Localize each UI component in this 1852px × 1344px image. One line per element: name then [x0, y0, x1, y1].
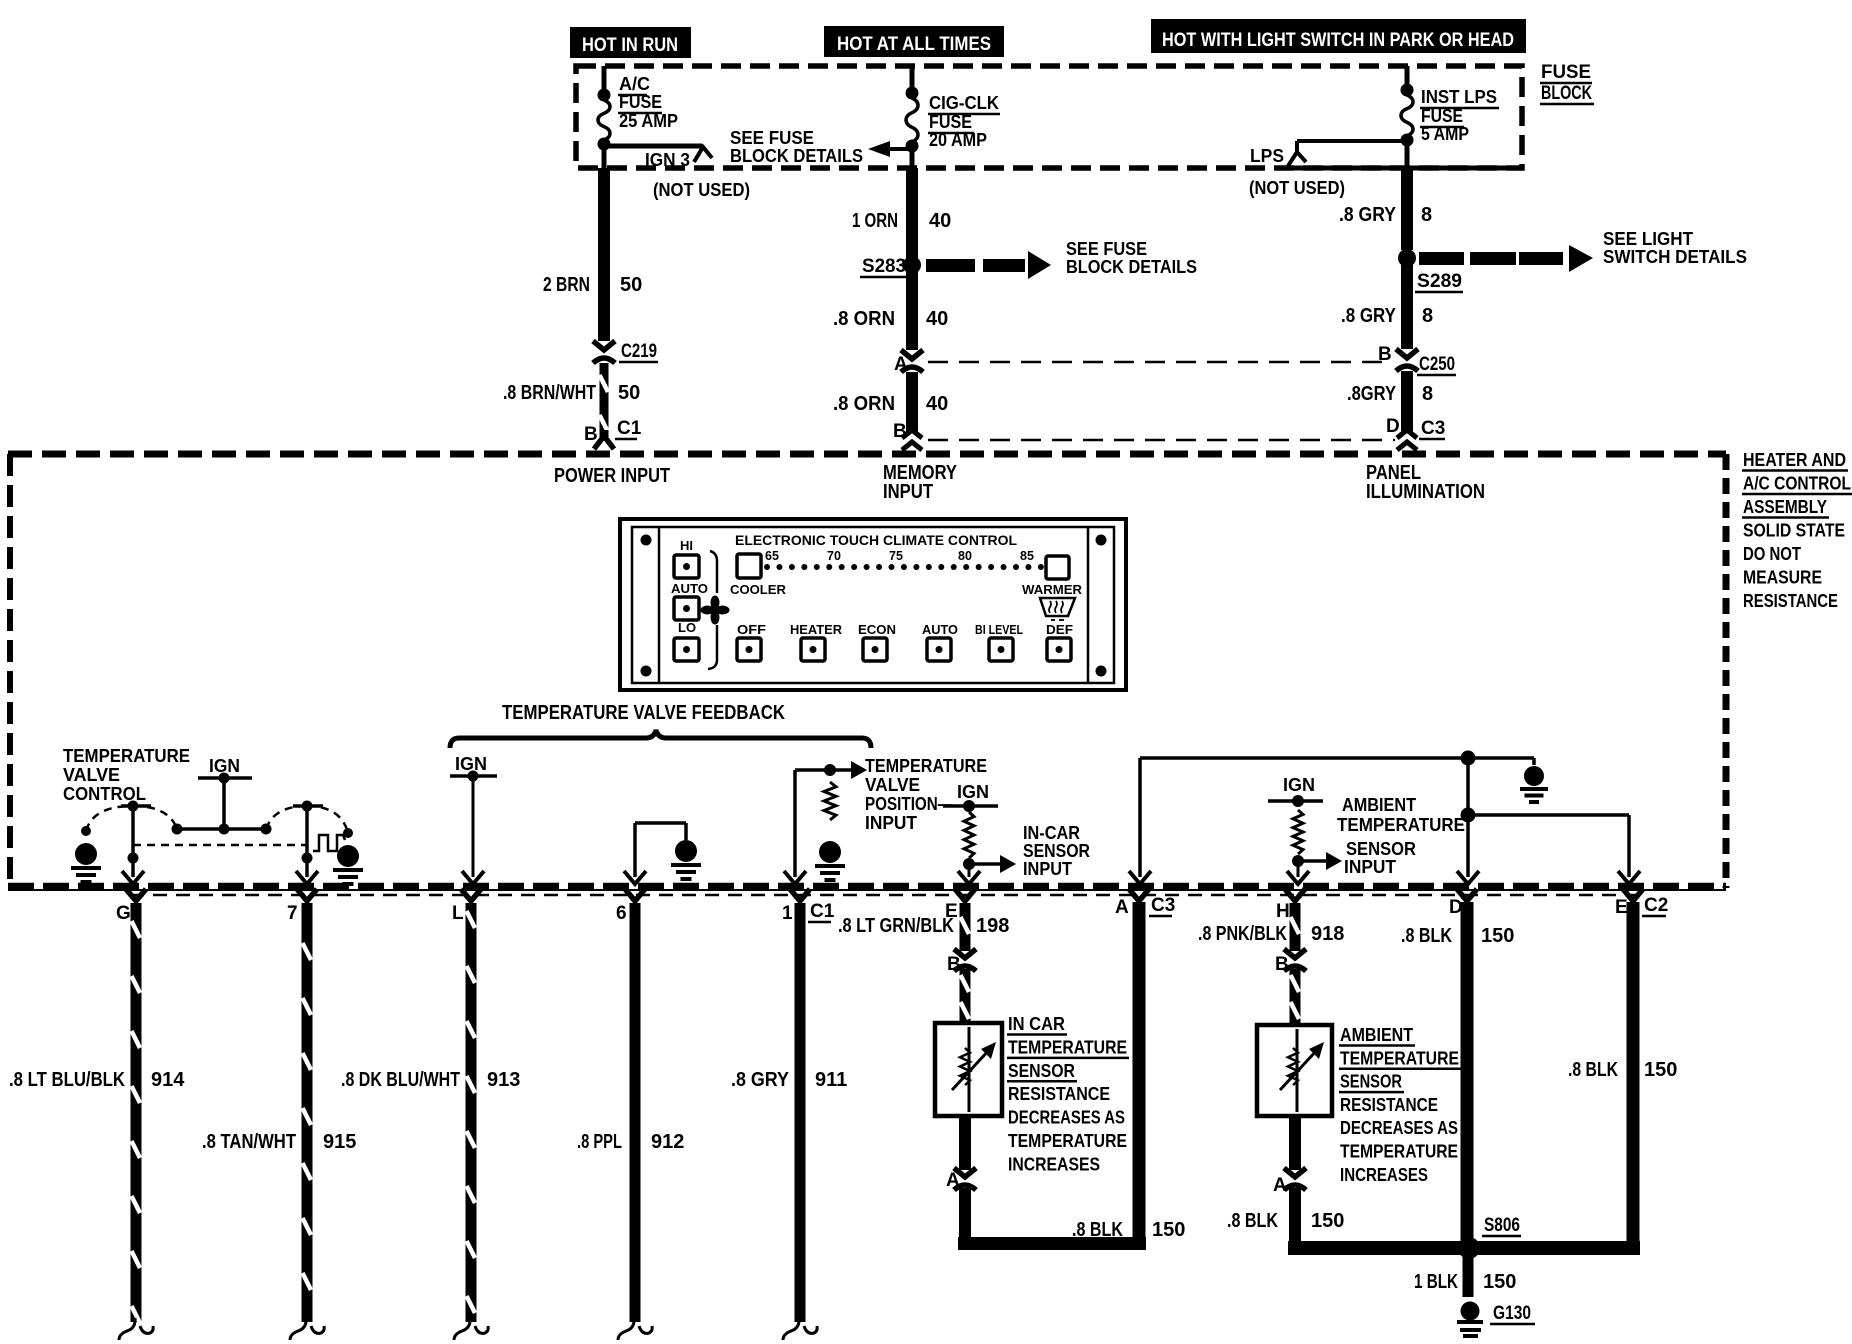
svg-text:SENSOR: SENSOR [1023, 841, 1090, 861]
svg-text:198: 198 [976, 915, 1009, 937]
svg-text:.8 GRY: .8 GRY [731, 1069, 790, 1091]
fuse CIG-CLK 20A [906, 66, 919, 170]
svg-text:B: B [1378, 344, 1392, 365]
svg-text:A/C: A/C [619, 74, 650, 94]
feedback brace [450, 730, 871, 748]
svg-text:HOT WITH LIGHT SWITCH IN PARK: HOT WITH LIGHT SWITCH IN PARK OR HEAD [1162, 30, 1514, 51]
button AUTO [927, 638, 951, 661]
svg-text:1 ORN: 1 ORN [852, 210, 898, 232]
label .8 LT GRN/BLK 198 [838, 915, 1009, 937]
label ECON [858, 622, 896, 637]
dashed line A-B C250 [928, 361, 1390, 364]
svg-text:8: 8 [1421, 204, 1432, 226]
label WARMER [1022, 582, 1083, 597]
dashed arc right [266, 806, 348, 833]
svg-text:IGN 3: IGN 3 [645, 150, 690, 170]
label MEMORY INPUT [883, 462, 958, 503]
wire G 914 [116, 889, 153, 1340]
svg-text:.8 BLK: .8 BLK [1227, 1210, 1278, 1232]
connector A in-car [946, 1168, 976, 1191]
wire 6 912 [616, 889, 652, 1340]
svg-text:G130: G130 [1493, 1303, 1531, 1324]
connector B in-car [947, 949, 976, 975]
svg-text:TEMPERATURE VALVE FEEDBACK: TEMPERATURE VALVE FEEDBACK [502, 702, 785, 724]
svg-text:.8 PNK/BLK: .8 PNK/BLK [1198, 923, 1287, 945]
wire H upper [1276, 889, 1305, 951]
svg-text:AUTO: AUTO [671, 581, 708, 596]
label S283 [860, 256, 906, 277]
label TEMPERATURE VALVE FEEDBACK [502, 702, 785, 724]
svg-text:70: 70 [827, 549, 841, 563]
label C219 [619, 341, 658, 362]
label .8 GRY 8 b [1341, 305, 1433, 327]
label LPS [1250, 146, 1284, 166]
svg-text:7: 7 [287, 903, 298, 924]
label see fuse block details 1 [730, 128, 863, 166]
wire to 7 [296, 806, 318, 884]
svg-text:FUSE: FUSE [929, 112, 972, 132]
button HEATER [801, 638, 825, 661]
wire .8 GRY 8 mid [1401, 258, 1413, 349]
label AUTO [922, 622, 958, 637]
dashed arrow S289 [1419, 245, 1593, 272]
svg-text:912: 912 [651, 1131, 684, 1153]
svg-text:SWITCH DETAILS: SWITCH DETAILS [1603, 247, 1747, 267]
wire .8 GRY 8 upper [1401, 167, 1413, 250]
svg-text:SENSOR: SENSOR [1346, 839, 1416, 859]
IGN feed 1 [198, 756, 252, 829]
label .8 BLK 150 D [1401, 925, 1514, 947]
svg-text:.8 GRY: .8 GRY [1341, 305, 1397, 327]
label HEATER [790, 622, 843, 637]
svg-text:40: 40 [926, 393, 948, 415]
svg-text:BI LEVEL: BI LEVEL [975, 622, 1023, 637]
label HEATER AND A/C CONTROL ASSEMBLY [1742, 450, 1852, 611]
svg-text:915: 915 [323, 1131, 356, 1153]
label 2 BRN 50 [543, 274, 642, 296]
svg-text:.8GRY: .8GRY [1347, 383, 1397, 405]
label C3 top [1419, 418, 1445, 439]
header HOT WITH LIGHT SWITCH IN PARK OR HEAD [1151, 19, 1526, 53]
fuse INST LPS 5A [1401, 66, 1414, 168]
svg-text:POWER INPUT: POWER INPUT [554, 465, 670, 487]
svg-text:IGN: IGN [957, 782, 989, 802]
svg-text:D: D [1386, 416, 1400, 437]
wire 1 BLK 150 [1463, 1255, 1474, 1297]
splice S283 [903, 256, 921, 274]
svg-text:AMBIENT: AMBIENT [1342, 795, 1416, 815]
label POWER INPUT [554, 465, 670, 487]
label .8 BLK 150 E2 [1568, 1059, 1677, 1081]
svg-text:BLOCK DETAILS: BLOCK DETAILS [730, 146, 863, 166]
IGN feed 2 [450, 754, 497, 884]
fan symbol [701, 596, 730, 625]
arrow to cig wire [868, 141, 912, 157]
label COOLER [730, 582, 787, 597]
in-car sensor box [935, 1023, 1002, 1116]
svg-text:(NOT USED): (NOT USED) [1249, 178, 1345, 198]
label IGN 3 [645, 150, 690, 170]
connector A ambient [1273, 1168, 1306, 1196]
label .8 PPL 912 [577, 1131, 684, 1153]
svg-text:B: B [947, 954, 961, 975]
label TEMPERATURE VALVE POSITION INPUT [865, 756, 987, 833]
svg-text:SENSOR: SENSOR [1340, 1072, 1402, 1092]
svg-text:B: B [584, 424, 598, 445]
label .8GRY 8 c [1347, 383, 1433, 405]
net to A C3 [1129, 751, 1534, 885]
valve position node [784, 761, 867, 884]
svg-text:WARMER: WARMER [1022, 582, 1083, 597]
svg-text:913: 913 [487, 1069, 520, 1091]
wire .8 BLK 150 in-car [959, 1188, 971, 1250]
label OFF [737, 622, 766, 637]
svg-text:INCREASES: INCREASES [1340, 1165, 1428, 1185]
label see fuse block details 2 [1066, 239, 1197, 277]
svg-text:HI: HI [680, 538, 693, 553]
svg-text:COOLER: COOLER [730, 582, 787, 597]
svg-text:DECREASES AS: DECREASES AS [1008, 1108, 1125, 1128]
net to E C2 [1468, 815, 1640, 884]
svg-text:VALVE: VALVE [865, 775, 920, 795]
svg-text:TEMPERATURE: TEMPERATURE [1337, 815, 1465, 835]
pin A [894, 354, 908, 375]
dashed line B-D C3 [928, 439, 1395, 442]
svg-text:RESISTANCE: RESISTANCE [1340, 1095, 1438, 1115]
wire .8 ORN 40 lower [906, 372, 918, 431]
wire E C2 150 [1615, 889, 1643, 1243]
svg-text:CIG-CLK: CIG-CLK [929, 93, 999, 113]
label BI LEVEL [975, 622, 1023, 637]
ground G130 [1457, 1302, 1483, 1337]
ground right [333, 828, 363, 884]
button COOLER [737, 554, 761, 578]
LPS branch [1288, 141, 1407, 166]
svg-text:POSITION—: POSITION— [865, 794, 953, 814]
pin B C1 [584, 424, 598, 445]
svg-text:8: 8 [1422, 383, 1433, 405]
IGN 3 branch [604, 146, 712, 162]
label .8 BLK 150 ambient [1227, 1210, 1344, 1232]
svg-text:HOT IN RUN: HOT IN RUN [582, 35, 678, 56]
svg-text:INST LPS: INST LPS [1421, 87, 1497, 107]
label .8 PNK/BLK 918 [1198, 923, 1344, 945]
fuse block box [576, 66, 1522, 168]
svg-text:INPUT: INPUT [883, 481, 933, 503]
label .8 BLK 150 in-car [1072, 1219, 1185, 1241]
label AUTO fan [671, 581, 708, 596]
svg-text:SEE LIGHT: SEE LIGHT [1603, 229, 1693, 249]
svg-text:IN CAR: IN CAR [1008, 1014, 1065, 1034]
svg-text:BLOCK: BLOCK [1541, 83, 1592, 104]
label not used 1 [653, 180, 750, 200]
svg-text:75: 75 [889, 549, 903, 563]
label HI [680, 538, 693, 553]
splice S289 [1398, 249, 1416, 267]
ambient sensor symbol [1280, 1029, 1324, 1112]
svg-text:20 AMP: 20 AMP [929, 130, 987, 150]
assembly box top [8, 451, 1726, 458]
svg-text:ECON: ECON [858, 622, 896, 637]
wire 2 BRN 50 [598, 168, 610, 341]
svg-text:.8 TAN/WHT: .8 TAN/WHT [202, 1131, 296, 1153]
svg-text:RESISTANCE: RESISTANCE [1743, 591, 1838, 611]
IGN feed 4 [1268, 775, 1323, 807]
wire loop bottom in-car [958, 1237, 1146, 1250]
IGN feed 3 [943, 782, 998, 812]
svg-text:C3: C3 [1421, 418, 1445, 439]
svg-text:IGN: IGN [1283, 775, 1315, 795]
svg-text:.8 LT BLU/BLK: .8 LT BLU/BLK [9, 1069, 125, 1091]
svg-text:150: 150 [1483, 1271, 1516, 1293]
svg-text:150: 150 [1644, 1059, 1677, 1081]
svg-text:BLOCK DETAILS: BLOCK DETAILS [1066, 257, 1197, 277]
svg-text:FUSE: FUSE [619, 92, 662, 112]
svg-text:C1: C1 [810, 901, 835, 922]
assembly box bottom [8, 886, 1726, 890]
svg-text:H: H [1276, 901, 1290, 922]
svg-text:AUTO: AUTO [922, 622, 958, 637]
label C3 bottom [1149, 895, 1175, 916]
bus line [172, 824, 272, 835]
svg-text:HEATER AND: HEATER AND [1743, 450, 1846, 470]
svg-text:.8 DK BLU/WHT: .8 DK BLU/WHT [341, 1069, 460, 1091]
button LO [674, 638, 699, 661]
wire to G [122, 806, 144, 884]
connector C219 [593, 341, 615, 363]
label not used 2 [1249, 178, 1345, 198]
header HOT IN RUN [570, 27, 691, 58]
svg-text:AMBIENT: AMBIENT [1340, 1025, 1413, 1045]
connector B ambient [1275, 949, 1306, 975]
splice S806 [1458, 1237, 1480, 1259]
svg-text:DECREASES AS: DECREASES AS [1340, 1118, 1458, 1138]
ground left [71, 826, 101, 882]
svg-text:E: E [1615, 897, 1628, 918]
label TEMPERATURE VALVE CONTROL [63, 746, 190, 804]
svg-text:TEMPERATURE: TEMPERATURE [1008, 1037, 1127, 1057]
label .8 BRN/WHT 50 [503, 382, 640, 404]
label .8 GRY 8 a [1339, 204, 1432, 226]
svg-text:SEE FUSE: SEE FUSE [1066, 239, 1147, 259]
svg-text:C219: C219 [621, 341, 657, 362]
svg-text:.8 GRY: .8 GRY [1339, 204, 1397, 226]
button ECON [863, 638, 887, 661]
svg-text:40: 40 [926, 308, 948, 330]
label S806 [1482, 1215, 1521, 1236]
scale numbers [765, 549, 1034, 563]
wire 1 911 [782, 889, 817, 1340]
svg-text:INPUT: INPUT [1023, 859, 1072, 879]
svg-text:ELECTRONIC TOUCH CLIMATE CONT: ELECTRONIC TOUCH CLIMATE CONTROL [735, 532, 1017, 548]
svg-text:.8 ORN: .8 ORN [833, 393, 895, 415]
ambient sensor box [1257, 1025, 1332, 1116]
label C1 top [615, 418, 642, 439]
svg-text:DEF: DEF [1046, 622, 1073, 637]
svg-text:FUSE: FUSE [1421, 106, 1463, 126]
label DEF [1046, 622, 1073, 637]
svg-text:65: 65 [765, 549, 779, 563]
svg-text:8: 8 [1422, 305, 1433, 327]
label see light switch details [1603, 229, 1747, 267]
svg-text:L: L [452, 903, 464, 924]
svg-text:50: 50 [620, 274, 642, 296]
fuse block bottom solid segment [1290, 166, 1522, 171]
wire E below sensor [959, 1116, 971, 1170]
svg-text:914: 914 [151, 1069, 185, 1091]
label C250 [1417, 354, 1456, 375]
svg-text:.8 ORN: .8 ORN [833, 308, 895, 330]
svg-text:85: 85 [1020, 549, 1034, 563]
svg-text:S806: S806 [1484, 1215, 1520, 1236]
position potentiometer [815, 782, 845, 880]
label PANEL ILLUMINATION [1366, 462, 1485, 503]
wire E to sensor [960, 969, 971, 1023]
label LO [678, 620, 696, 635]
connector D at C3 [1397, 430, 1417, 450]
connector A inline [901, 350, 923, 372]
wire 1 ORN 40 upper [906, 168, 918, 258]
svg-text:RESISTANCE: RESISTANCE [1008, 1084, 1110, 1104]
svg-text:150: 150 [1152, 1219, 1185, 1241]
svg-text:5 AMP: 5 AMP [1421, 124, 1469, 144]
svg-text:TEMPERATURE: TEMPERATURE [1340, 1048, 1459, 1068]
button HI [674, 555, 699, 578]
svg-text:911: 911 [815, 1069, 847, 1091]
svg-text:.8 BLK: .8 BLK [1568, 1059, 1618, 1081]
svg-text:INPUT: INPUT [865, 813, 917, 833]
svg-text:150: 150 [1311, 1210, 1344, 1232]
connector row dashed line [130, 894, 1642, 897]
control panel bezel [620, 519, 1126, 690]
dashed link [133, 844, 307, 847]
svg-text:TEMPERATURE: TEMPERATURE [1008, 1131, 1127, 1151]
svg-text:FUSE: FUSE [1541, 62, 1591, 83]
ground top right [1520, 758, 1548, 802]
svg-text:(NOT USED): (NOT USED) [653, 180, 750, 200]
svg-text:LO: LO [678, 620, 696, 635]
svg-text:TEMPERATURE: TEMPERATURE [63, 746, 190, 766]
label AMBIENT TEMPERATURE SENSOR text [1339, 1025, 1461, 1185]
wire A C3 150 [1115, 889, 1149, 1250]
button AUTO fan [674, 597, 699, 620]
label .8 LT BLU/BLK 914 [9, 1069, 185, 1091]
svg-text:MEASURE: MEASURE [1743, 568, 1822, 588]
svg-text:TEMPERATURE: TEMPERATURE [1340, 1142, 1458, 1162]
label .8 GRY 911 [731, 1069, 847, 1091]
fuse A/C 25A [598, 66, 611, 170]
wire E upper [945, 889, 975, 951]
svg-text:S283: S283 [862, 256, 906, 277]
wire .8 ORN 40 mid [906, 265, 918, 350]
scale dots [764, 564, 1044, 570]
svg-text:C1: C1 [617, 418, 642, 439]
label C1 bottom [808, 901, 835, 922]
label INST LPS FUSE 5 AMP [1420, 87, 1499, 144]
ground mid [624, 823, 701, 884]
label AMBIENT TEMPERATURE SENSOR INPUT [1337, 795, 1465, 877]
label IN-CAR SENSOR INPUT [1023, 823, 1090, 879]
svg-text:SENSOR: SENSOR [1008, 1061, 1075, 1081]
svg-text:1: 1 [782, 903, 793, 924]
svg-text:LPS: LPS [1250, 146, 1284, 166]
fuse block label [1540, 62, 1594, 104]
label IN CAR TEMPERATURE SENSOR text [1007, 1014, 1129, 1174]
svg-text:VALVE: VALVE [63, 765, 120, 785]
in-car sensor symbol [952, 1027, 996, 1112]
label 1 BLK 150 [1414, 1271, 1516, 1293]
wire H to sensor [1290, 969, 1301, 1025]
svg-text:HEATER: HEATER [790, 622, 843, 637]
label 1 ORN 40 [852, 210, 951, 232]
wire bottom bus to S806 and E C2 [1288, 1241, 1640, 1255]
svg-text:.8 LT GRN/BLK: .8 LT GRN/BLK [838, 915, 954, 937]
svg-text:.8 BRN/WHT: .8 BRN/WHT [503, 382, 596, 404]
label .8 ORN 40 a [833, 308, 948, 330]
pulse symbol [313, 835, 345, 851]
svg-text:.8 BLK: .8 BLK [1401, 925, 1452, 947]
wire .8 BRN/WHT 50 [600, 363, 609, 432]
wire .8 BLK 150 ambient [1289, 1188, 1301, 1248]
svg-text:C2: C2 [1644, 895, 1668, 916]
svg-text:40: 40 [929, 210, 951, 232]
svg-text:1 BLK: 1 BLK [1414, 1271, 1458, 1293]
svg-text:A: A [1273, 1175, 1287, 1196]
in-car sensor node [958, 812, 1016, 884]
svg-text:G: G [116, 903, 131, 924]
svg-text:25 AMP: 25 AMP [619, 111, 678, 131]
svg-text:918: 918 [1311, 923, 1344, 945]
svg-text:INCREASES: INCREASES [1008, 1154, 1100, 1174]
label .8 TAN/WHT 915 [202, 1131, 356, 1153]
connector B at C1 [902, 372, 922, 450]
svg-text:DO NOT: DO NOT [1743, 544, 1801, 564]
svg-text:.8 PPL: .8 PPL [577, 1131, 622, 1153]
header HOT AT ALL TIMES [824, 26, 1004, 57]
label A/C FUSE 25 AMP [618, 74, 678, 131]
fan brace [708, 551, 717, 669]
svg-text:OFF: OFF [737, 622, 766, 637]
wire 7 915 [287, 889, 324, 1340]
assembly box left [7, 454, 13, 886]
svg-text:IN-CAR: IN-CAR [1023, 823, 1080, 843]
button OFF [737, 638, 761, 661]
button WARMER [1046, 556, 1069, 579]
label C2 [1642, 895, 1668, 916]
pin B C250 [1378, 344, 1392, 365]
svg-text:ILLUMINATION: ILLUMINATION [1366, 481, 1485, 503]
svg-text:C250: C250 [1419, 354, 1455, 375]
button BI LEVEL [989, 638, 1013, 661]
svg-text:INPUT: INPUT [1344, 857, 1396, 877]
label S289 [1415, 271, 1463, 292]
svg-text:80: 80 [958, 549, 972, 563]
svg-text:C3: C3 [1151, 895, 1175, 916]
pin D C3 [1386, 416, 1400, 437]
svg-text:HOT AT ALL TIMES: HOT AT ALL TIMES [837, 34, 991, 55]
label CIG-CLK FUSE 20 AMP [928, 93, 1000, 150]
wiper right [293, 801, 323, 812]
wire L 913 [452, 889, 488, 1340]
label .8 ORN 40 b [833, 393, 948, 415]
svg-text:TEMPERATURE: TEMPERATURE [865, 756, 987, 776]
label G130 [1490, 1303, 1535, 1324]
defrost icon [1040, 598, 1075, 620]
svg-text:2 BRN: 2 BRN [543, 274, 590, 296]
connector C1 half [594, 430, 614, 449]
svg-text:SEE FUSE: SEE FUSE [730, 128, 814, 148]
svg-text:A: A [1115, 897, 1129, 918]
